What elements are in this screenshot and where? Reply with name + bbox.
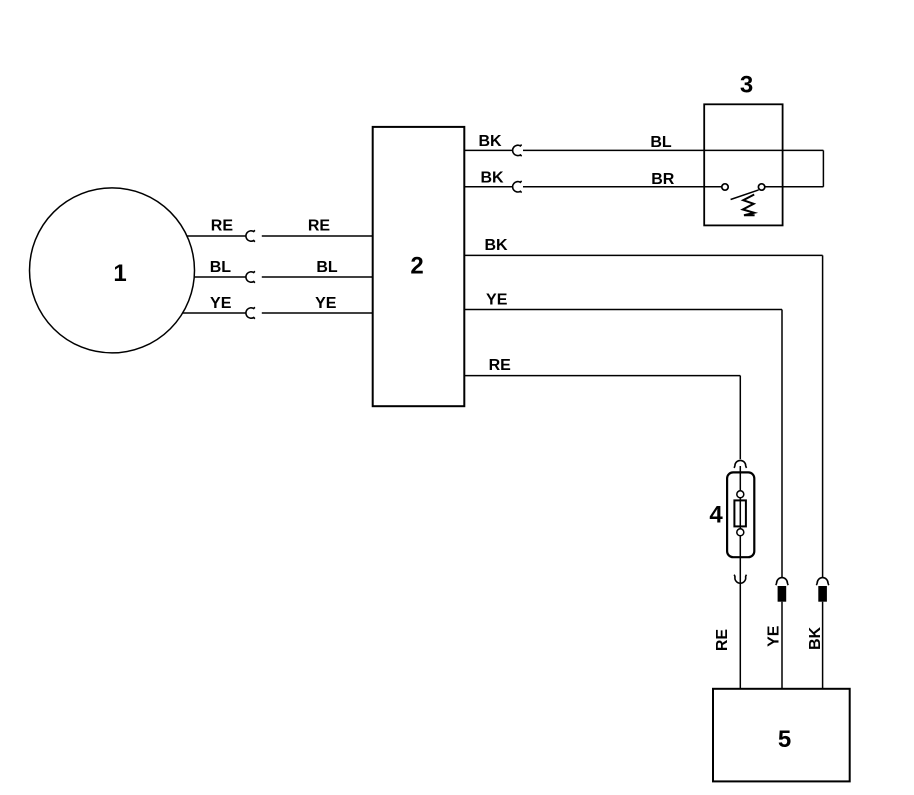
connector BL bbox=[246, 271, 255, 282]
connector socket fuse bottom bbox=[734, 575, 746, 584]
component 2 (CDI unit) box bbox=[373, 127, 465, 406]
fuse bottom cap circle bbox=[737, 529, 744, 536]
wire BK row3 from 2 to right bend bbox=[464, 254, 822, 256]
connector BK row1 bbox=[513, 145, 522, 156]
wire RE vertical down to fuse bbox=[739, 376, 741, 460]
svg-text:1: 1 bbox=[113, 260, 126, 287]
wire RE from connector to 2 bbox=[262, 235, 373, 237]
svg-text:BK: BK bbox=[480, 169, 504, 186]
wire BL row1 from connector through 3 to right bend bbox=[523, 149, 823, 151]
wire BR row2 from connector to switch contact bbox=[523, 186, 722, 188]
wire RE row from 2 to right bend bbox=[464, 375, 740, 377]
switch left contact bbox=[722, 184, 728, 190]
fuse element wire bbox=[739, 498, 741, 529]
svg-text:5: 5 bbox=[778, 726, 791, 753]
wire BK row1 from 2 to connector bbox=[464, 149, 512, 151]
wire RE to 5 bbox=[739, 584, 741, 689]
svg-text:2: 2 bbox=[410, 253, 423, 280]
wire BK vertical down bbox=[822, 255, 824, 577]
connector socket BK bottom bbox=[816, 578, 829, 586]
terminal BK (black plug) bbox=[818, 586, 827, 602]
component 5 box bbox=[713, 689, 850, 782]
wire right vertical of BL loop bbox=[822, 150, 824, 186]
svg-text:BR: BR bbox=[651, 171, 675, 188]
svg-text:YE: YE bbox=[486, 292, 508, 309]
wire return to switch right contact bbox=[765, 186, 823, 188]
connector YE bbox=[246, 307, 255, 318]
component 3 box bbox=[704, 104, 782, 225]
svg-text:YE: YE bbox=[315, 295, 337, 312]
wire YE from connector to 2 bbox=[262, 312, 373, 314]
wire BK row2 from 2 to connector bbox=[464, 186, 512, 188]
switch right contact bbox=[758, 184, 764, 190]
svg-text:RE: RE bbox=[308, 218, 331, 235]
fuse top cap circle bbox=[737, 491, 744, 498]
component 4 fuse body bbox=[727, 472, 754, 557]
connector BK row2 bbox=[513, 181, 522, 192]
wire YE from 1 to connector bbox=[182, 312, 245, 314]
svg-text:BL: BL bbox=[316, 259, 338, 276]
svg-text:BK: BK bbox=[484, 237, 508, 254]
connector RE bbox=[246, 230, 255, 241]
switch heater spring bbox=[743, 195, 755, 216]
svg-text:BK: BK bbox=[807, 627, 824, 651]
wire BL from 1 to connector bbox=[194, 276, 245, 278]
terminal YE (black plug) bbox=[778, 586, 787, 602]
switch blade bbox=[731, 190, 759, 200]
wire into fuse body bbox=[739, 466, 741, 491]
wire YE row from 2 to right bend bbox=[464, 309, 782, 311]
svg-text:BK: BK bbox=[478, 133, 502, 150]
svg-text:RE: RE bbox=[211, 218, 234, 235]
svg-text:YE: YE bbox=[766, 625, 783, 647]
svg-text:3: 3 bbox=[740, 71, 753, 98]
svg-text:YE: YE bbox=[210, 295, 232, 312]
connector socket fuse top bbox=[734, 460, 747, 468]
svg-text:4: 4 bbox=[709, 502, 723, 529]
wire BL from connector to 2 bbox=[262, 276, 373, 278]
wire RE from 1 to connector bbox=[187, 235, 245, 237]
connector socket YE bottom bbox=[776, 578, 789, 586]
component 1 (generator) circle bbox=[30, 188, 195, 353]
wire YE to 5 bbox=[781, 602, 783, 689]
svg-text:BL: BL bbox=[650, 134, 672, 151]
svg-text:RE: RE bbox=[489, 357, 512, 374]
wire from fuse cap to body bottom bbox=[739, 536, 741, 584]
svg-text:BL: BL bbox=[210, 259, 232, 276]
wire YE vertical down bbox=[781, 310, 783, 578]
wire BK to 5 bbox=[822, 602, 824, 689]
fuse element rect bbox=[734, 500, 746, 526]
svg-text:RE: RE bbox=[714, 629, 731, 652]
